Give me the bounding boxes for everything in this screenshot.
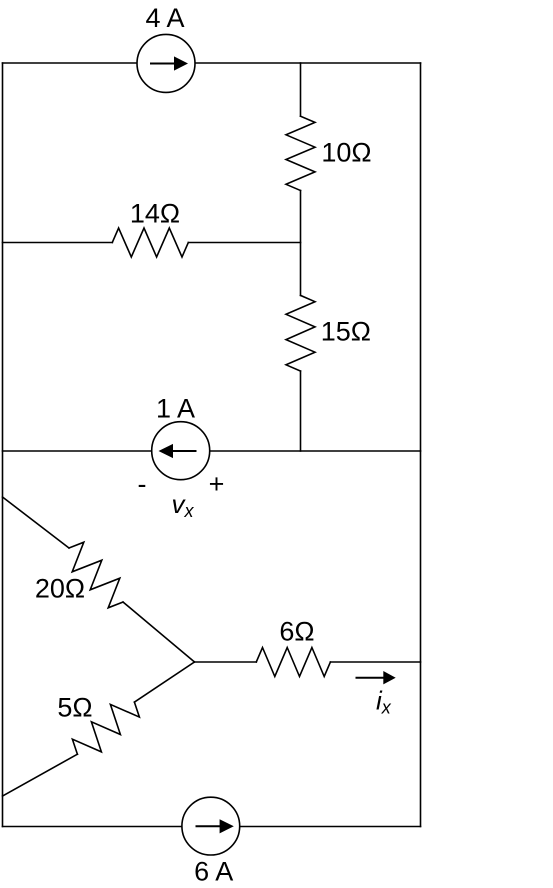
- current source 4A circle: [137, 34, 195, 92]
- resistor 6ohm: [256, 648, 330, 677]
- resistor 20ohm: [69, 542, 123, 608]
- wire 14-ohm row left lead: [3, 242, 113, 244]
- svg-text:1 A: 1 A: [156, 394, 195, 424]
- svg-text:6 A: 6 A: [194, 857, 233, 887]
- svg-text:-: -: [138, 469, 147, 499]
- wire bottom left segment: [3, 826, 183, 828]
- wire left edge: [2, 63, 4, 827]
- wire middle row right of 1 A source: [210, 450, 421, 452]
- svg-text:6Ω: 6Ω: [279, 617, 314, 647]
- svg-text:20Ω: 20Ω: [35, 574, 85, 604]
- resistor 14ohm: [112, 228, 188, 257]
- arrow of 1A source: [159, 444, 197, 458]
- wire 6-ohm to right edge: [330, 661, 420, 663]
- svg-text:4 A: 4 A: [145, 3, 184, 33]
- wire right edge: [420, 63, 422, 827]
- resistor 5ohm: [72, 702, 139, 754]
- wire junction to 6-ohm: [195, 661, 257, 663]
- resistor 15ohm: [286, 295, 315, 371]
- current source 6A circle: [182, 797, 240, 855]
- wire bottom lead of 15-ohm: [300, 371, 302, 451]
- svg-text:15Ω: 15Ω: [321, 317, 371, 347]
- wire 5-ohm upper lead from junction: [134, 662, 194, 702]
- arrow of 4A source: [150, 56, 188, 70]
- current source 1A circle: [152, 422, 210, 480]
- arrow of ix current: [356, 671, 396, 684]
- svg-text:+: +: [209, 469, 225, 499]
- resistor 10ohm: [286, 116, 315, 190]
- wire 20-ohm lower lead to junction: [123, 602, 195, 662]
- wire middle row left of 1 A source: [3, 450, 152, 452]
- svg-text:10Ω: 10Ω: [321, 138, 371, 168]
- arrow of 6A source: [196, 819, 234, 833]
- svg-text:vx: vx: [172, 489, 195, 521]
- svg-text:ix: ix: [376, 686, 392, 718]
- wire bottom right segment: [240, 826, 421, 828]
- wire 14-ohm row right lead: [188, 242, 300, 244]
- svg-text:5Ω: 5Ω: [57, 693, 92, 723]
- wire top left segment: [3, 62, 138, 64]
- wire 5-ohm lower lead: [3, 754, 78, 796]
- wire top lead of 10-ohm: [300, 63, 302, 116]
- svg-text:14Ω: 14Ω: [130, 199, 180, 229]
- wire between 10-ohm and 15-ohm: [300, 191, 302, 296]
- wire 20-ohm upper lead: [3, 497, 70, 548]
- wire top right segment: [195, 62, 421, 64]
